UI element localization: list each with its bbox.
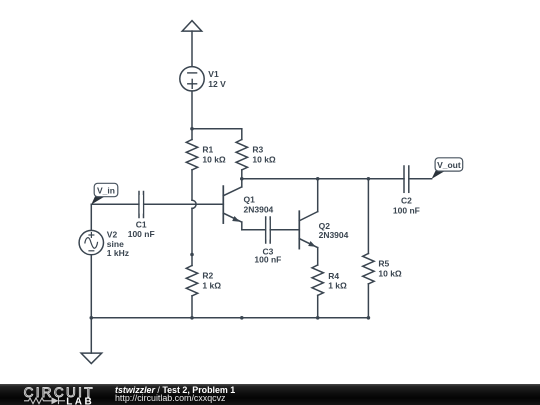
svg-text:C2: C2: [401, 196, 412, 206]
svg-text:12 V: 12 V: [208, 79, 226, 89]
svg-text:R4: R4: [328, 271, 339, 281]
svg-text:V1: V1: [208, 69, 219, 79]
svg-text:LAB: LAB: [66, 396, 94, 405]
svg-text:R3: R3: [252, 145, 263, 155]
svg-text:1 kHz: 1 kHz: [107, 248, 129, 258]
svg-text:R1: R1: [202, 145, 213, 155]
svg-text:10 kΩ: 10 kΩ: [378, 268, 402, 278]
svg-text:100 nF: 100 nF: [254, 255, 281, 265]
svg-text:R5: R5: [378, 259, 389, 269]
svg-text:1 kΩ: 1 kΩ: [328, 281, 347, 291]
svg-text:V_in: V_in: [97, 185, 115, 195]
svg-text:R2: R2: [202, 271, 213, 281]
svg-text:Q1: Q1: [244, 195, 256, 205]
svg-text:10 kΩ: 10 kΩ: [202, 154, 226, 164]
svg-text:V_out: V_out: [437, 160, 461, 170]
svg-text:10 kΩ: 10 kΩ: [252, 154, 276, 164]
svg-text:C1: C1: [136, 219, 147, 229]
svg-text:1 kΩ: 1 kΩ: [202, 280, 221, 290]
svg-text:2N3904: 2N3904: [244, 204, 274, 214]
svg-text:2N3904: 2N3904: [319, 230, 349, 240]
svg-text:100 nF: 100 nF: [128, 229, 155, 239]
svg-text:100 nF: 100 nF: [393, 206, 420, 216]
